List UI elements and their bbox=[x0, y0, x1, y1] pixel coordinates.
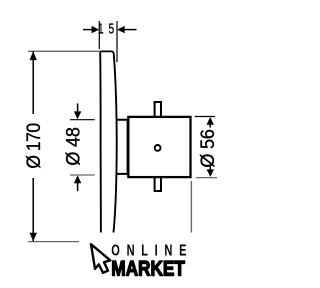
svg-text:Ø 56: Ø 56 bbox=[197, 129, 219, 167]
svg-text:Ø 48: Ø 48 bbox=[62, 127, 84, 165]
svg-text:MARKET: MARKET bbox=[111, 257, 185, 281]
svg-text:Ø 170: Ø 170 bbox=[23, 123, 45, 169]
svg-text:1 5: 1 5 bbox=[98, 21, 115, 37]
